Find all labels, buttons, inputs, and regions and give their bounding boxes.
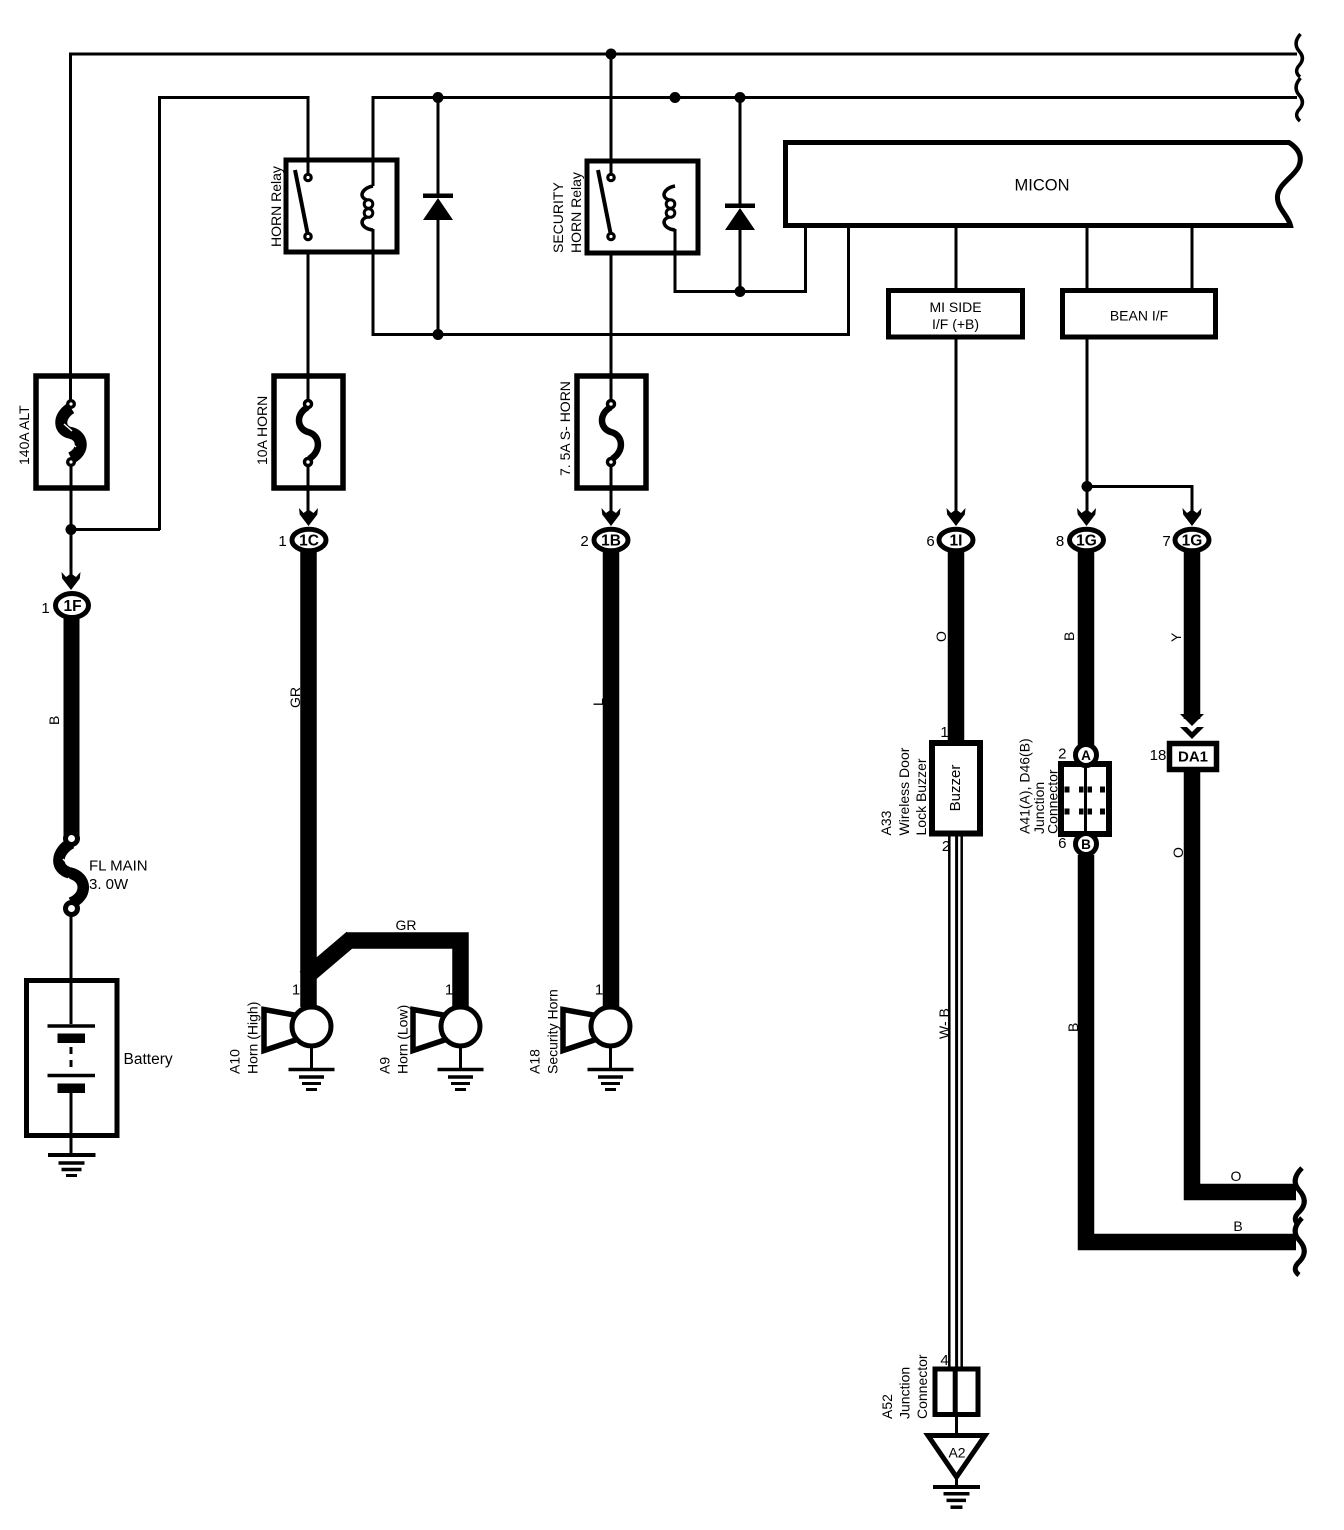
fuse 7.5A S-HORN box <box>577 376 646 488</box>
connector oval 1C <box>292 529 326 551</box>
svg-text:Junction: Junction <box>897 1367 913 1419</box>
security relay switch contacts and arm <box>598 170 614 240</box>
wire triangle A2 to ground <box>955 1477 958 1487</box>
junction J3 diode D1 anode tap on W2b <box>433 92 444 103</box>
horn A18 Security Horn mouth <box>563 1010 599 1051</box>
double arrow into DA1 <box>1180 714 1204 739</box>
svg-text:A: A <box>1081 748 1091 763</box>
label A33 Wireless Door Lock Buzzer <box>878 747 929 835</box>
MICON pin to BEAN I/F box right <box>1191 227 1194 291</box>
label A9 Horn (Low) <box>377 1005 411 1074</box>
junction connector A41 internal line and pins <box>1065 764 1106 834</box>
diode D1 <box>423 98 453 335</box>
junction connector A41(A) D46(B) box <box>1061 764 1109 834</box>
svg-text:Wireless Door: Wireless Door <box>896 747 912 835</box>
junction J2 below 140A ALT <box>66 524 77 535</box>
arrow into connector 1C <box>299 508 318 526</box>
arrow into connector 1B <box>602 508 621 526</box>
svg-text:Lock Buzzer: Lock Buzzer <box>913 758 929 835</box>
break symbol at right end of B wire <box>1295 1218 1304 1275</box>
svg-text:1: 1 <box>940 724 948 741</box>
ground triangle A2 <box>928 1436 985 1478</box>
ground below horn low <box>438 1070 484 1090</box>
IC U1 MICON box <box>786 143 1301 226</box>
svg-text:Connector: Connector <box>1045 769 1061 834</box>
svg-text:6: 6 <box>926 533 934 550</box>
ground below horn high <box>289 1070 335 1090</box>
svg-text:2: 2 <box>1058 746 1066 763</box>
svg-text:BEAN I/F: BEAN I/F <box>1110 308 1168 324</box>
arrow into connector 8 1G <box>1077 508 1096 526</box>
connector oval 1F <box>56 594 89 618</box>
wire segment from fusible link junction to W2a riser <box>70 528 160 531</box>
diode D2 <box>725 98 755 292</box>
svg-text:W- B: W- B <box>936 1008 952 1039</box>
MICON pin to MI SIDE I/F box <box>955 227 958 291</box>
svg-text:B: B <box>1061 632 1077 641</box>
thick wire L from connector 1B to security horn <box>603 552 620 1007</box>
wire horn relay coil return to MICON pin <box>373 227 849 335</box>
svg-text:1C: 1C <box>299 533 319 550</box>
svg-text:1: 1 <box>445 982 453 999</box>
wire security relay contact to 7.5A S-HORN fuse <box>610 251 613 404</box>
svg-text:3. 0W: 3. 0W <box>89 876 129 893</box>
wire W1 top bus from 140A ALT up and across to right edge <box>71 54 1298 400</box>
block BEAN I/F box <box>1063 291 1216 338</box>
connector DA1 box <box>1170 744 1217 770</box>
thick wire GR branch diagonal <box>305 938 352 978</box>
svg-text:GR: GR <box>287 687 303 708</box>
block MI SIDE I/F (+B) box <box>889 291 1023 338</box>
connector oval 7 1G <box>1175 529 1209 551</box>
label FL MAIN 3.0W <box>89 858 148 894</box>
thick wire B from junction connector B circle to right edge <box>1078 855 1296 1242</box>
break symbol at right end of W2b <box>1296 78 1302 121</box>
horn A18 Security Horn body <box>591 1007 630 1046</box>
battery cell plates <box>48 1026 96 1093</box>
junction J8 branch to connector 7 1G <box>1082 481 1093 492</box>
thick wire B from connector 1F to fusible link FL MAIN <box>64 618 80 836</box>
thick wire Y from connector 7 1G to DA1 <box>1184 552 1201 719</box>
svg-text:HORN Relay: HORN Relay <box>268 166 284 247</box>
label A10 Horn (High) <box>227 1002 261 1074</box>
MICON pin to BEAN I/F box left <box>1086 227 1089 291</box>
svg-text:O: O <box>1231 1168 1242 1184</box>
ground below security horn <box>588 1070 634 1090</box>
svg-text:SECURITY: SECURITY <box>550 182 566 253</box>
svg-text:6: 6 <box>1058 835 1066 852</box>
svg-text:Security Horn: Security Horn <box>545 989 561 1074</box>
svg-text:B: B <box>1233 1218 1242 1234</box>
label A41(A), D46(B) Junction Connector <box>1017 738 1061 834</box>
connector oval 1B <box>594 529 628 551</box>
svg-text:O: O <box>1170 847 1186 858</box>
svg-text:1F: 1F <box>63 598 81 615</box>
wire 10A HORN fuse bottom to arrow <box>307 466 310 512</box>
junction connector A52 box <box>935 1369 978 1415</box>
svg-text:8: 8 <box>1056 533 1064 550</box>
fuse 10A HORN box <box>274 376 343 488</box>
junction J1 on W1 feeding security relay contact <box>606 49 617 60</box>
wire horn high to ground <box>310 1046 313 1070</box>
wire 7.5A S-HORN fuse bottom to arrow <box>610 466 613 512</box>
connector oval 1I <box>939 529 973 551</box>
wire security horn to ground <box>609 1046 612 1070</box>
wire W2a riser and feed to horn relay contact <box>160 98 309 531</box>
svg-text:Y: Y <box>1168 632 1184 642</box>
junction connector pin A circle <box>1076 745 1097 766</box>
junction J5 diode D2 tap on W2b <box>735 92 746 103</box>
horn relay switch contacts and arm <box>295 170 311 240</box>
svg-text:1G: 1G <box>1076 533 1097 550</box>
svg-text:A52: A52 <box>879 1394 895 1419</box>
thick wire GR branch horizontal <box>346 941 461 1008</box>
arrow into connector 7 1G <box>1183 508 1202 526</box>
horn A10 Horn (High) body <box>292 1007 331 1046</box>
ground below battery <box>48 1155 96 1176</box>
svg-text:Horn (Low): Horn (Low) <box>395 1005 411 1074</box>
svg-text:A2: A2 <box>948 1445 965 1461</box>
svg-text:B: B <box>1065 1023 1081 1032</box>
wire horn low to ground <box>459 1046 462 1070</box>
svg-text:7: 7 <box>1162 533 1170 550</box>
wire battery negative to ground <box>70 1093 73 1154</box>
security relay coil <box>664 186 675 230</box>
svg-text:A33: A33 <box>878 810 894 835</box>
fusible link FL MAIN 3.0W <box>59 833 83 915</box>
junction connector pin B circle <box>1076 834 1097 855</box>
thick wire GR from connector 1C to horn high <box>300 552 317 1007</box>
junction J4 security coil tap on W2b <box>670 92 681 103</box>
svg-text:O: O <box>933 631 949 642</box>
svg-text:18: 18 <box>1150 747 1167 764</box>
wire A52 to ground triangle A2 <box>955 1415 958 1436</box>
svg-text:Connector: Connector <box>914 1354 930 1419</box>
fuse 140A ALT box <box>36 376 107 488</box>
wire security coil return to MICON pin <box>675 227 806 292</box>
arrow into connector 1I <box>947 508 966 526</box>
horn A10 Horn (High) mouth <box>264 1010 300 1051</box>
svg-text:1: 1 <box>41 600 49 617</box>
svg-text:Battery: Battery <box>124 1051 173 1068</box>
thick wire O from DA1 to right edge <box>1184 768 1296 1192</box>
wire 140A ALT to fuse element and down to J2 <box>70 466 73 580</box>
svg-text:140A ALT: 140A ALT <box>16 405 32 465</box>
svg-text:7. 5A S- HORN: 7. 5A S- HORN <box>557 381 573 476</box>
svg-text:1: 1 <box>278 533 286 550</box>
wire MI SIDE I/F to connector 1I <box>955 337 958 512</box>
ground below A2 <box>933 1487 980 1507</box>
wire from J1 down to security relay contact <box>610 54 613 174</box>
fuse element 7.5A S-HORN <box>602 401 621 466</box>
svg-text:1: 1 <box>595 982 603 999</box>
svg-text:DA1: DA1 <box>1178 749 1208 766</box>
svg-text:A9: A9 <box>377 1057 393 1074</box>
junction J7 diode D2 cathode on security return <box>735 286 746 297</box>
fuse element 10A HORN <box>299 401 318 466</box>
svg-text:I/F (+B): I/F (+B) <box>932 316 979 332</box>
horn A9 Horn (Low) body <box>441 1007 480 1046</box>
junction J6 diode D1 cathode on coil return <box>433 329 444 340</box>
arrow into connector 1F <box>62 572 81 590</box>
svg-text:A18: A18 <box>527 1049 543 1074</box>
relay HORN Relay box <box>286 160 397 252</box>
break symbol at right end of W1 <box>1296 34 1302 77</box>
svg-text:Buzzer: Buzzer <box>947 765 964 812</box>
svg-text:10A HORN: 10A HORN <box>254 396 270 465</box>
svg-text:A10: A10 <box>227 1049 243 1074</box>
svg-text:Horn (High): Horn (High) <box>245 1002 261 1074</box>
label A18 Security Horn <box>527 989 561 1074</box>
junction connector A52 divider <box>953 1369 958 1415</box>
svg-text:4: 4 <box>940 1352 948 1369</box>
svg-text:1: 1 <box>292 982 300 999</box>
svg-text:MICON: MICON <box>1015 177 1070 195</box>
wire W2b coil bus to right edge <box>373 98 1297 187</box>
shielded wire W-B buzzer to A52 <box>949 834 961 1370</box>
buzzer A33 box <box>932 743 980 834</box>
svg-text:1G: 1G <box>1182 533 1203 550</box>
fuse element 140A ALT fusible link <box>61 401 81 466</box>
horn relay coil <box>362 186 373 230</box>
svg-text:FL MAIN: FL MAIN <box>89 858 148 875</box>
label A52 Junction Connector <box>879 1354 930 1419</box>
svg-text:B: B <box>1081 837 1091 852</box>
svg-text:1B: 1B <box>601 533 621 550</box>
label MI SIDE I/F (+B) <box>929 299 981 332</box>
label SECURITY HORN Relay <box>550 172 584 253</box>
svg-text:MI SIDE: MI SIDE <box>929 299 981 315</box>
svg-text:HORN Relay: HORN Relay <box>568 172 584 253</box>
svg-text:2: 2 <box>942 838 950 855</box>
thick wire O from connector 1I to buzzer <box>948 552 965 746</box>
horn A9 Horn (Low) mouth <box>413 1010 449 1051</box>
svg-text:2: 2 <box>580 533 588 550</box>
break symbol at right end of O wire <box>1295 1168 1304 1225</box>
connector oval 8 1G <box>1070 529 1104 551</box>
wire BEAN I/F to connector 8 1G <box>1086 337 1089 512</box>
svg-text:GR: GR <box>396 917 417 933</box>
thick wire B from connector 8 1G to junction connector A <box>1078 552 1095 746</box>
wire FL MAIN to battery <box>70 914 73 1024</box>
wire horn relay contact to 10A HORN fuse <box>307 250 310 404</box>
battery box <box>27 981 118 1136</box>
svg-text:B: B <box>46 716 62 725</box>
wire branch to connector 7 1G <box>1087 487 1192 513</box>
svg-text:1I: 1I <box>950 533 963 550</box>
svg-text:L: L <box>590 698 606 706</box>
relay SECURITY HORN Relay box <box>587 161 698 253</box>
